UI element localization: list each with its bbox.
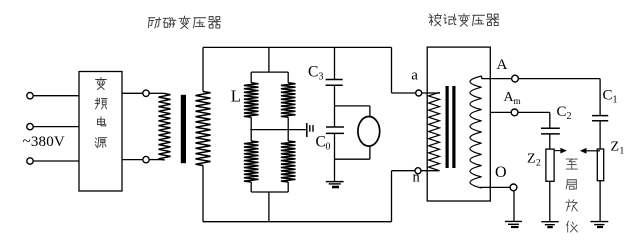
T1 core [181,95,186,163]
wire top rail [203,46,392,48]
svg-text:Z: Z [611,140,620,155]
wire L bottom stub [268,192,270,222]
wire C1 to Z1 [599,121,601,149]
svg-text:C: C [316,134,326,151]
wire to node n [392,170,416,172]
node out-top terminal [143,90,149,96]
impedance Z1 box [597,149,603,181]
wire rail to C3 [334,47,336,79]
svg-text:~380V: ~380V [23,134,65,150]
wire C0 to ground [334,133,336,182]
node O terminal [510,184,517,191]
wire L top connector [251,71,288,73]
wire C3 to C0 [334,85,336,127]
wire A to C1 [518,78,600,80]
wire to T1 primary top [149,92,164,94]
wire Z2 tap arrow [554,150,561,152]
svg-text:1: 1 [620,147,625,157]
wire L bottom connector [251,191,288,193]
ground G3 [541,221,558,223]
wire Am lead [490,111,511,113]
capacitor C0 main plates [326,126,344,128]
wire C2 to Z2 [549,134,551,149]
wire to T1 primary bottom [149,159,164,161]
svg-text:m: m [514,96,521,106]
inductor L branch2 upper [281,83,296,118]
capacitor C0 small plates [309,125,311,132]
wire L middle tap [250,129,307,131]
svg-text:L: L [231,87,241,106]
variable-frequency source box [79,72,122,192]
title bei-shi-bian-ya-qi (transformer under test) [429,14,499,27]
label bian-pin-dian-yuan (variable frequency power source) [95,77,107,148]
capacitor C2 [541,127,560,129]
T2 secondary winding [470,76,482,188]
wire detector branch top [335,105,370,107]
inductor L branch2 lower [281,141,296,182]
wire right drop to a [391,47,393,93]
wire L1 to converter [33,95,79,97]
wire L2 to converter [33,126,79,128]
svg-text:a: a [411,68,418,84]
wire A hook [481,76,483,79]
wire converter out top [122,92,143,94]
T1 primary winding [159,94,171,161]
impedance Z2 box [546,149,554,181]
svg-text:1: 1 [613,95,618,106]
wire L left lower stub [250,182,252,192]
wire Z1 tap arrow [586,150,600,152]
svg-text:2: 2 [536,159,541,169]
wire T1 secondary bottom drop [202,166,204,222]
wire L left upper stub [250,72,252,83]
wire L left mid stub [250,117,252,141]
capacitor C3 [326,79,343,81]
svg-text:0: 0 [326,142,331,153]
wire a into box [422,92,440,94]
wire O lead [480,186,510,188]
wire L right lower stub [287,182,289,192]
detector meter PD [358,117,380,147]
wire detector branch bottom [335,158,370,160]
wire converter out bottom [122,159,143,161]
svg-text:C: C [308,64,318,81]
wire L3 to converter [33,160,79,162]
ground G4 [590,221,608,223]
node Am terminal [511,109,518,116]
wire Z1 to ground [599,181,601,222]
T1 secondary winding [196,92,211,166]
wire O to ground [513,191,515,222]
node L3 input terminal [27,158,33,164]
wire detector bottom drop [369,146,371,159]
wire A drop to C1 [599,79,601,116]
node a terminal [416,90,422,96]
svg-text:A: A [497,57,508,73]
title li-ci-bian-ya-qi (excitation transformer) [148,16,220,29]
wire A lead [482,78,512,80]
label zhi-ju-fang-yi (to partial discharge instrument) [566,159,578,232]
wire L right upper stub [287,72,289,83]
ground G1 [326,181,344,183]
wire n into box [421,170,440,172]
capacitor tap plate [306,123,308,137]
capacitor C1 [592,115,608,117]
wire Z2 to ground [549,181,551,221]
svg-text:C: C [603,88,613,104]
node L1 input terminal [27,93,33,99]
wire L right mid stub [287,117,289,141]
wire detector drop [369,106,371,117]
T2 enclosure box [427,47,490,201]
inductor L branch1 lower [244,141,259,182]
node out-bottom terminal [143,156,149,162]
node A terminal [512,75,519,82]
ground G2 [505,220,522,222]
wire to node a [392,92,416,94]
wire Am to C2 [518,111,550,113]
wire right riser from n [391,171,393,222]
svg-text:Z: Z [527,152,536,167]
svg-text:C: C [557,104,567,120]
svg-text:2: 2 [567,111,572,122]
node L2 input terminal [27,123,33,129]
wire bottom rail [203,221,392,223]
inductor L branch1 upper [244,83,259,118]
T2 primary winding [429,92,440,170]
wire L top stub [268,47,270,72]
wire T1 secondary top riser [202,47,204,91]
node n terminal [415,168,421,174]
wire Am drop to C2 [549,112,551,128]
svg-text:3: 3 [319,72,324,83]
svg-text:O: O [495,164,507,181]
T2 core [446,86,449,168]
